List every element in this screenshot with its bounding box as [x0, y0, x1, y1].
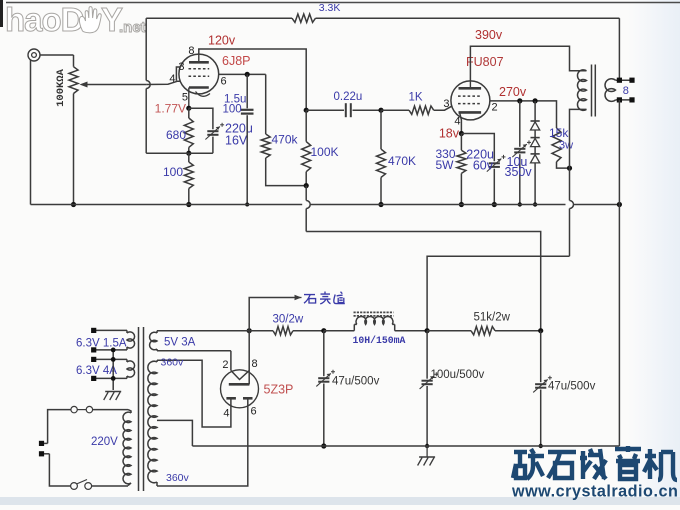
label right-channel (CJK strokes)	[304, 292, 345, 304]
mains switch	[71, 480, 128, 490]
svg-text:100K: 100K	[311, 145, 339, 159]
heater ground tie	[111, 348, 116, 391]
label 390v	[475, 28, 503, 42]
node 47u right ground	[539, 444, 543, 448]
U2 cathode	[459, 111, 482, 114]
label 6J8P	[222, 54, 251, 68]
svg-text:6: 6	[251, 406, 257, 418]
node 330 ground	[459, 202, 464, 207]
wire U3 plate1 to HV top	[157, 360, 231, 427]
node feedback tap	[617, 78, 622, 83]
U3 filament V	[231, 371, 249, 380]
label 3.3K	[319, 2, 341, 14]
capacitor 100u/500v	[420, 331, 439, 446]
U1 grids	[189, 69, 210, 76]
node diode ground	[533, 202, 537, 206]
label 270v	[499, 85, 527, 99]
svg-text:100: 100	[223, 104, 242, 116]
svg-text:.net: .net	[119, 19, 146, 36]
wire mains top	[44, 410, 71, 444]
terminals 6.3V1.5A	[91, 328, 96, 353]
wire node to 0.22u	[306, 109, 344, 111]
label 30/2w	[273, 314, 304, 326]
svg-text:680: 680	[166, 128, 186, 142]
wire filter1 to choke	[324, 330, 355, 332]
wire cathode to bypass cap	[189, 108, 213, 129]
ground symbol main	[418, 446, 436, 466]
node 15k tap	[567, 166, 572, 171]
wire B+ drop with hop	[306, 186, 310, 232]
svg-text:haoD: haoD	[5, 1, 84, 38]
bottom ground rail	[192, 445, 619, 447]
svg-text:5V 3A: 5V 3A	[164, 337, 196, 349]
label 220V	[91, 436, 118, 448]
wire mains bottom	[44, 454, 71, 486]
PT 220V winding	[123, 410, 131, 486]
label 100KOA	[55, 68, 67, 107]
PT HV winding	[148, 360, 157, 486]
left edge mark	[0, 0, 3, 27]
wire jack to pot top	[40, 54, 74, 56]
wire OPT secondary top	[616, 79, 633, 81]
wire B+ to OPT	[427, 256, 569, 330]
node 10u ground	[518, 202, 522, 206]
svg-text:8: 8	[252, 358, 258, 370]
svg-text:8: 8	[623, 85, 629, 97]
svg-text:360v: 360v	[161, 357, 185, 369]
resistor 100	[184, 153, 193, 204]
U1 plate	[189, 54, 209, 62]
pot wiper arrow	[80, 82, 147, 88]
svg-text:16V: 16V	[225, 134, 248, 148]
node pin6 junction	[245, 72, 250, 77]
capacitor 220u 60v	[487, 155, 506, 205]
U1 pin labels	[169, 45, 226, 104]
U2 pin labels	[443, 98, 497, 128]
wire feedback vertical left	[146, 18, 150, 153]
node diode junction	[533, 98, 538, 103]
wire feedback top rail left	[146, 17, 292, 19]
wire OPT secondary bottom	[616, 99, 633, 101]
node B+ takeoff	[247, 328, 252, 333]
svg-text:100KΩA: 100KΩA	[55, 68, 67, 107]
svg-text:4: 4	[223, 408, 229, 420]
label 680	[166, 128, 186, 142]
U2 grids	[458, 96, 482, 104]
svg-text:0.22u: 0.22u	[334, 91, 363, 103]
svg-text:51k/2w: 51k/2w	[474, 312, 511, 324]
wire grid3 tie	[176, 67, 180, 81]
label 1.5u 100	[223, 94, 247, 116]
label 360v bottom	[166, 472, 190, 484]
resistor 51k/2w	[427, 327, 541, 335]
resistor 1K grid stopper	[381, 106, 452, 114]
crystalradio url	[511, 483, 678, 501]
U3 pin2 lead	[230, 351, 232, 371]
svg-text:FU807: FU807	[466, 55, 504, 69]
node 470K ground	[378, 202, 383, 207]
label 360v top	[161, 357, 185, 369]
wire wiper to grid	[146, 81, 180, 84]
node 220u ground	[492, 202, 497, 207]
resistor 3.3K feedback	[292, 14, 316, 22]
PT core	[139, 327, 144, 491]
node A junction	[186, 151, 191, 156]
label 220u 16V	[225, 122, 253, 148]
label 51k/2w	[474, 312, 511, 324]
U3 pin labels	[222, 358, 257, 420]
label 100	[163, 165, 183, 179]
svg-text:3.3K: 3.3K	[319, 2, 341, 14]
tube U3 5Z3P envelope	[221, 370, 259, 408]
svg-text:10H/150mA: 10H/150mA	[353, 335, 406, 346]
node pot bottom	[71, 202, 76, 207]
wire choke to filter2	[395, 330, 427, 332]
OPT core	[592, 65, 596, 117]
wire U2 cathode drop	[460, 112, 462, 133]
label 47u/500v left	[332, 376, 380, 388]
fuse	[71, 406, 128, 412]
capacitor 47u/500v left	[316, 331, 335, 446]
input jack J1	[28, 49, 40, 61]
node filter3	[538, 328, 543, 333]
label 6.3V 1.5A	[76, 338, 127, 350]
svg-text:1.77V: 1.77V	[155, 102, 186, 116]
PT 6.3V1.5A winding	[96, 330, 135, 350]
svg-text:6.3V 4A: 6.3V 4A	[76, 365, 117, 377]
resistor 330 5W	[457, 134, 466, 205]
wire U3 plate2 to HV bottom	[157, 398, 248, 486]
svg-text:270v: 270v	[499, 85, 527, 99]
label 100u/500v	[431, 369, 485, 381]
node 18v	[459, 131, 464, 136]
svg-text:4: 4	[454, 116, 460, 128]
capacitor 0.22u	[346, 103, 351, 117]
node secondary bottom	[617, 97, 622, 102]
wire OPT primary bottom drop	[570, 109, 587, 256]
node 47u left ground	[321, 443, 326, 448]
wire 1.5u branch	[246, 74, 248, 108]
svg-text:3w: 3w	[559, 140, 573, 152]
U1 cathode	[189, 88, 209, 109]
svg-text:2: 2	[492, 102, 498, 114]
label 8 ohm	[623, 85, 629, 97]
svg-text:390v: 390v	[475, 28, 503, 42]
wire U1 plate to node	[199, 49, 306, 110]
label 15k 3w	[549, 126, 573, 152]
wire 18v to 220u cap	[461, 134, 494, 162]
wire feedback drop right	[618, 18, 620, 80]
svg-text:100: 100	[163, 165, 183, 179]
wire right channel feed	[249, 295, 301, 331]
potentiometer 100K A	[69, 55, 78, 205]
label 1.77V	[155, 102, 186, 116]
wire B+ horizontal	[306, 232, 541, 331]
svg-text:470K: 470K	[388, 154, 416, 168]
label 18v	[439, 127, 460, 141]
label 220u 60v	[466, 148, 494, 173]
svg-text:100u/500v: 100u/500v	[431, 369, 485, 381]
terminals 6.3V4A	[91, 357, 96, 381]
U3 cathode bar	[229, 383, 250, 386]
svg-text:5W: 5W	[436, 158, 455, 172]
svg-text:60v: 60v	[473, 159, 494, 173]
resistor 30/2w	[249, 327, 324, 335]
svg-text:1K: 1K	[409, 92, 423, 104]
label 470k	[272, 133, 299, 147]
U2 plate	[459, 81, 482, 88]
PT HV center tap	[157, 420, 192, 446]
svg-text:6J8P: 6J8P	[222, 54, 251, 68]
wire speaker ground drop	[618, 100, 620, 446]
diode string D1-D3	[531, 101, 540, 205]
wire 5V top lead	[157, 330, 249, 332]
label 470K	[388, 154, 416, 168]
choke 10H/150mA	[354, 312, 395, 330]
resistor 680	[184, 108, 193, 153]
label 5V 3A	[164, 337, 196, 349]
svg-text:18v: 18v	[439, 127, 460, 141]
label 120v	[208, 34, 236, 48]
svg-text:2: 2	[222, 359, 228, 371]
wire 0.22u to grid node	[353, 109, 382, 111]
node filter1	[321, 328, 326, 333]
ground symbol heater	[104, 392, 122, 401]
wire 270v line	[490, 101, 557, 128]
resistor 100K plate load	[302, 110, 311, 185]
capacitor 47u/500v right	[533, 331, 552, 446]
label 10H/150mA	[353, 335, 406, 346]
crystalradio CJK watermark	[513, 446, 677, 480]
label 330 5W	[435, 147, 455, 172]
capacitor 220u 16V	[205, 123, 224, 153]
svg-text:6.3V 1.5A: 6.3V 1.5A	[76, 338, 127, 350]
node grid leak junction	[378, 108, 383, 113]
svg-text:360v: 360v	[166, 472, 190, 484]
node plate/coupling junction	[304, 108, 309, 113]
node 1.5u ground	[245, 203, 249, 207]
label FU807	[466, 55, 504, 69]
top border line	[6, 2, 680, 4]
resistor 15k 3w	[552, 128, 570, 168]
wire jack ground drop	[30, 60, 32, 205]
node 100u ground	[425, 444, 429, 448]
node filter2	[425, 328, 430, 333]
label 1K	[409, 92, 423, 104]
capacitor 1.5u 100	[241, 110, 254, 205]
resistor 470k screen	[261, 74, 306, 185]
node speaker ground	[617, 202, 622, 207]
PT 5V 3A winding	[150, 331, 157, 351]
wire U2 plate to 390v line	[470, 46, 586, 81]
speaker terminals	[629, 78, 634, 103]
label 10u 350v	[505, 155, 533, 179]
PT 6.3V4A winding	[96, 359, 135, 378]
label 0.22u	[334, 91, 363, 103]
svg-text:3: 3	[178, 61, 184, 73]
svg-text:8: 8	[188, 45, 194, 57]
node U1 cathode 1.77V	[186, 106, 191, 111]
svg-text:47u/500v: 47u/500v	[332, 376, 380, 388]
node B+ drop junction	[304, 183, 309, 188]
resistor 470K grid leak	[377, 110, 386, 204]
capacitor 10u 350v	[512, 101, 531, 205]
svg-text:350v: 350v	[505, 165, 533, 179]
haoDIY.net watermark logo	[5, 1, 146, 38]
node 10u junction	[517, 98, 522, 103]
svg-text:www.crystalradio.cn: www.crystalradio.cn	[511, 483, 678, 501]
label 100K	[311, 145, 339, 159]
svg-text:3: 3	[443, 98, 449, 110]
OPT secondary winding	[605, 79, 615, 102]
wire 5V bottom lead	[157, 350, 231, 352]
svg-text:15k: 15k	[549, 126, 569, 140]
svg-text:220V: 220V	[91, 436, 118, 448]
svg-text:120v: 120v	[208, 34, 236, 48]
label 5Z3P	[264, 383, 294, 397]
svg-text:470k: 470k	[272, 133, 299, 147]
mains plug terminals	[39, 441, 44, 457]
wire feedback top rail right	[316, 17, 620, 19]
node 100 bottom	[186, 202, 191, 207]
U3 plates	[226, 397, 252, 400]
wire U1 pin6	[219, 73, 266, 75]
svg-text:4: 4	[169, 73, 175, 85]
tube U1 6J8P envelope	[179, 54, 219, 94]
main ground rail	[31, 204, 620, 206]
svg-text:5Z3P: 5Z3P	[264, 383, 294, 397]
tube U2 FU807 envelope	[451, 81, 490, 120]
U1 heater arc	[196, 92, 211, 97]
label 6.3V 4A	[76, 365, 117, 377]
svg-text:30/2w: 30/2w	[273, 314, 304, 326]
U3 pin8 lead	[248, 331, 250, 385]
svg-text:6: 6	[221, 76, 227, 88]
label 47u/500v right	[548, 381, 596, 393]
node A wire	[146, 152, 213, 154]
svg-text:47u/500v: 47u/500v	[548, 381, 596, 393]
OPT primary winding	[577, 70, 586, 111]
